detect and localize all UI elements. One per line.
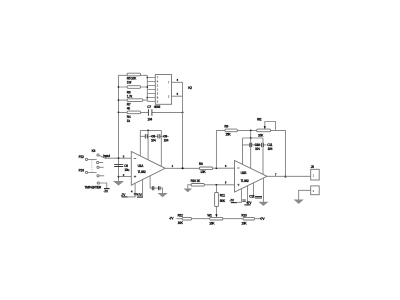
wire: U1A pin4 to -7V — [128, 183, 136, 197]
svg-text:10u: 10u — [124, 168, 129, 172]
svg-text:4066: 4066 — [154, 105, 161, 109]
wire: R13 to +7V — [255, 218, 260, 220]
bypass cap U1A supply — [134, 193, 137, 194]
svg-text:R13: R13 — [241, 213, 247, 217]
wire: R11 to W1 wiper — [215, 207, 217, 217]
switch K3 arm to common — [99, 155, 105, 158]
resistor R8 — [199, 167, 212, 170]
svg-text:R10 1K: R10 1K — [191, 179, 201, 183]
wire: W1 to R13 — [223, 218, 243, 220]
potentiometer W1 body — [210, 217, 223, 220]
svg-text:C7: C7 — [147, 105, 151, 109]
capacitor C11 — [261, 143, 263, 147]
wire: PZ4 to K3 — [88, 171, 97, 173]
svg-text:1.7k: 1.7k — [127, 94, 133, 98]
op-amp U1B — [235, 161, 268, 193]
wire: R7 row — [119, 99, 148, 101]
svg-text:TMP-ENTER: TMP-ENTER — [85, 185, 102, 189]
wire: feedback verticals U1A — [140, 130, 161, 166]
capacitor C7 — [148, 109, 152, 115]
node: feedback meets output — [284, 176, 286, 178]
wire: U1B pin stub to ground — [262, 178, 264, 202]
svg-text:U1B: U1B — [241, 171, 248, 175]
wire: U1B pin4 to -7V — [237, 189, 242, 203]
svg-text:PZ2: PZ2 — [79, 155, 85, 159]
ground: U1B — [258, 202, 268, 206]
wire: left input bus vertical — [118, 75, 120, 158]
connector J6 — [311, 186, 320, 195]
power -7V bar U1B — [231, 202, 237, 204]
power +7V bar U1A — [137, 196, 143, 198]
bypass caps on ground run — [152, 186, 160, 190]
resistor R7 — [127, 99, 143, 102]
wire: comp cap row U1B — [243, 144, 267, 146]
capacitor C6 — [114, 165, 123, 167]
resistor R11 vertical — [215, 193, 219, 207]
resistor R6 — [127, 86, 140, 89]
power -7V bar at switch — [104, 188, 110, 190]
svg-text:R8: R8 — [199, 162, 203, 166]
wire: C6 branch down — [118, 158, 120, 181]
wire: K2 net vertical down to U1A output — [182, 82, 184, 168]
wire: W2 to output drop — [271, 130, 286, 176]
svg-text:C12: C12 — [249, 195, 255, 199]
svg-text:104: 104 — [255, 147, 260, 151]
svg-text:104: 104 — [164, 139, 169, 143]
node: C7 wire meets K2 vertical — [182, 112, 184, 114]
node: input meets bus — [118, 157, 120, 159]
wire: feedback top run to R9 — [216, 129, 256, 131]
svg-text:104: 104 — [147, 118, 152, 122]
node: comp box tap on feedback — [250, 130, 252, 132]
analog switch U2 body — [155, 75, 171, 105]
wire: U1A pin stub to ground — [150, 176, 163, 193]
wire: R4 row to C7 — [119, 111, 183, 113]
svg-text:W1: W1 — [207, 213, 212, 217]
wire: jog vertical feeding U2 pins — [146, 75, 148, 101]
resistor R13 — [243, 217, 254, 220]
wire: -7V to R12 — [177, 218, 183, 220]
svg-text:104: 104 — [268, 147, 273, 151]
potentiometer W2 wiper tie — [265, 122, 276, 131]
wire: input net to U1A pin3 — [105, 157, 131, 159]
node: bus-R4 junction — [118, 112, 120, 114]
wire: U1B pin8 to +7V — [247, 186, 249, 205]
wire: R5 row — [119, 74, 148, 76]
wire: U2 right pin stubs — [172, 82, 183, 96]
wire: PZ2 to K3 — [88, 158, 97, 160]
svg-text:R9: R9 — [224, 124, 228, 128]
wire: contact5 to -7V — [99, 183, 106, 188]
wire: R8 to U1B pin6 — [213, 167, 235, 169]
svg-text:K3: K3 — [92, 149, 96, 153]
ground: U1A — [158, 193, 168, 197]
resistor R5 — [127, 73, 140, 76]
switch K3 linkage dashed — [91, 160, 93, 172]
svg-text:PZ4: PZ4 — [79, 168, 85, 172]
wire: U1A output to R8 — [165, 167, 199, 169]
svg-text:R11: R11 — [220, 194, 225, 198]
wire: U2 left pin stubs — [147, 78, 155, 102]
switch K3 contact 2 — [97, 161, 99, 163]
wire: U1A pin8 to +7V — [142, 180, 144, 198]
switch K3 contact 3 — [97, 166, 99, 168]
svg-text:104: 104 — [151, 139, 156, 143]
node: jog junction b — [147, 86, 149, 88]
svg-text:K2: K2 — [188, 86, 192, 90]
wire: R12 to W1 — [192, 218, 210, 220]
svg-text:4k: 4k — [127, 107, 131, 111]
node: bus-R2 junction — [118, 86, 120, 88]
capacitor C9 — [158, 134, 160, 138]
wire: comp cap row U1A — [140, 135, 168, 137]
resistor R12 — [182, 217, 191, 220]
potentiometer W1 wiper arrow — [215, 214, 217, 217]
resistor R4 — [127, 111, 140, 114]
bypass cap U1B supply — [242, 200, 246, 201]
wire: comp box feed — [250, 130, 252, 138]
svg-text:1k: 1k — [127, 119, 131, 123]
resistor R9 — [225, 129, 237, 132]
node: feedback tap at pin6 — [216, 167, 218, 169]
power +7V bar U1B — [244, 204, 250, 206]
capacitor C12 — [255, 197, 262, 199]
wire: U1B comp pin stub — [253, 183, 255, 197]
svg-text:R12: R12 — [178, 213, 184, 217]
svg-text:W2: W2 — [257, 118, 262, 122]
node: output meets K2 vertical — [182, 167, 184, 169]
svg-text:J5: J5 — [311, 165, 315, 169]
node: jog junction a — [147, 77, 149, 79]
node: R11 tap at pin5 — [216, 184, 218, 186]
ground: J6 — [294, 200, 304, 204]
ground: under C6 — [113, 181, 124, 186]
resistor R10 — [191, 184, 204, 187]
potentiometer W2 body — [257, 129, 271, 132]
svg-text:TL082: TL082 — [241, 179, 249, 183]
switch K3 contact 4 — [97, 175, 99, 177]
node: bus-R3 junction — [118, 99, 120, 101]
comp box U1B top wire — [243, 137, 264, 139]
wire: R6 row — [119, 86, 148, 88]
wire: U1B output to J5 — [267, 175, 311, 177]
node: comp box dot — [250, 137, 252, 139]
feedback box U1A top wire — [140, 129, 161, 131]
node: pin2 tap — [118, 176, 120, 178]
svg-text:TL082: TL082 — [138, 170, 146, 174]
switch K3 contact 1 — [97, 154, 99, 156]
svg-text:U1A: U1A — [138, 164, 145, 168]
op-amp U1A — [131, 152, 165, 186]
wire: feedback left vertical — [215, 130, 217, 168]
wire: J6 to ground — [299, 190, 311, 199]
wire: to U1A pin2 — [119, 176, 132, 178]
wire: ground to R10 — [188, 185, 191, 189]
node: jog junction c — [147, 97, 149, 99]
ground: R10 — [184, 189, 193, 193]
capacitor C10 — [250, 143, 252, 147]
power -7V bar U1A — [121, 196, 127, 198]
wire: comp verticals U1B — [243, 138, 264, 174]
node: feedback box dot — [147, 130, 149, 132]
capacitor C8 — [145, 134, 147, 138]
wire: R10 to U1B pin5 — [204, 184, 234, 186]
wire: pin5 node down to R11 — [215, 185, 217, 193]
svg-text:1W: 1W — [127, 81, 132, 85]
switch K3 contact 5 (enter) — [97, 182, 99, 184]
